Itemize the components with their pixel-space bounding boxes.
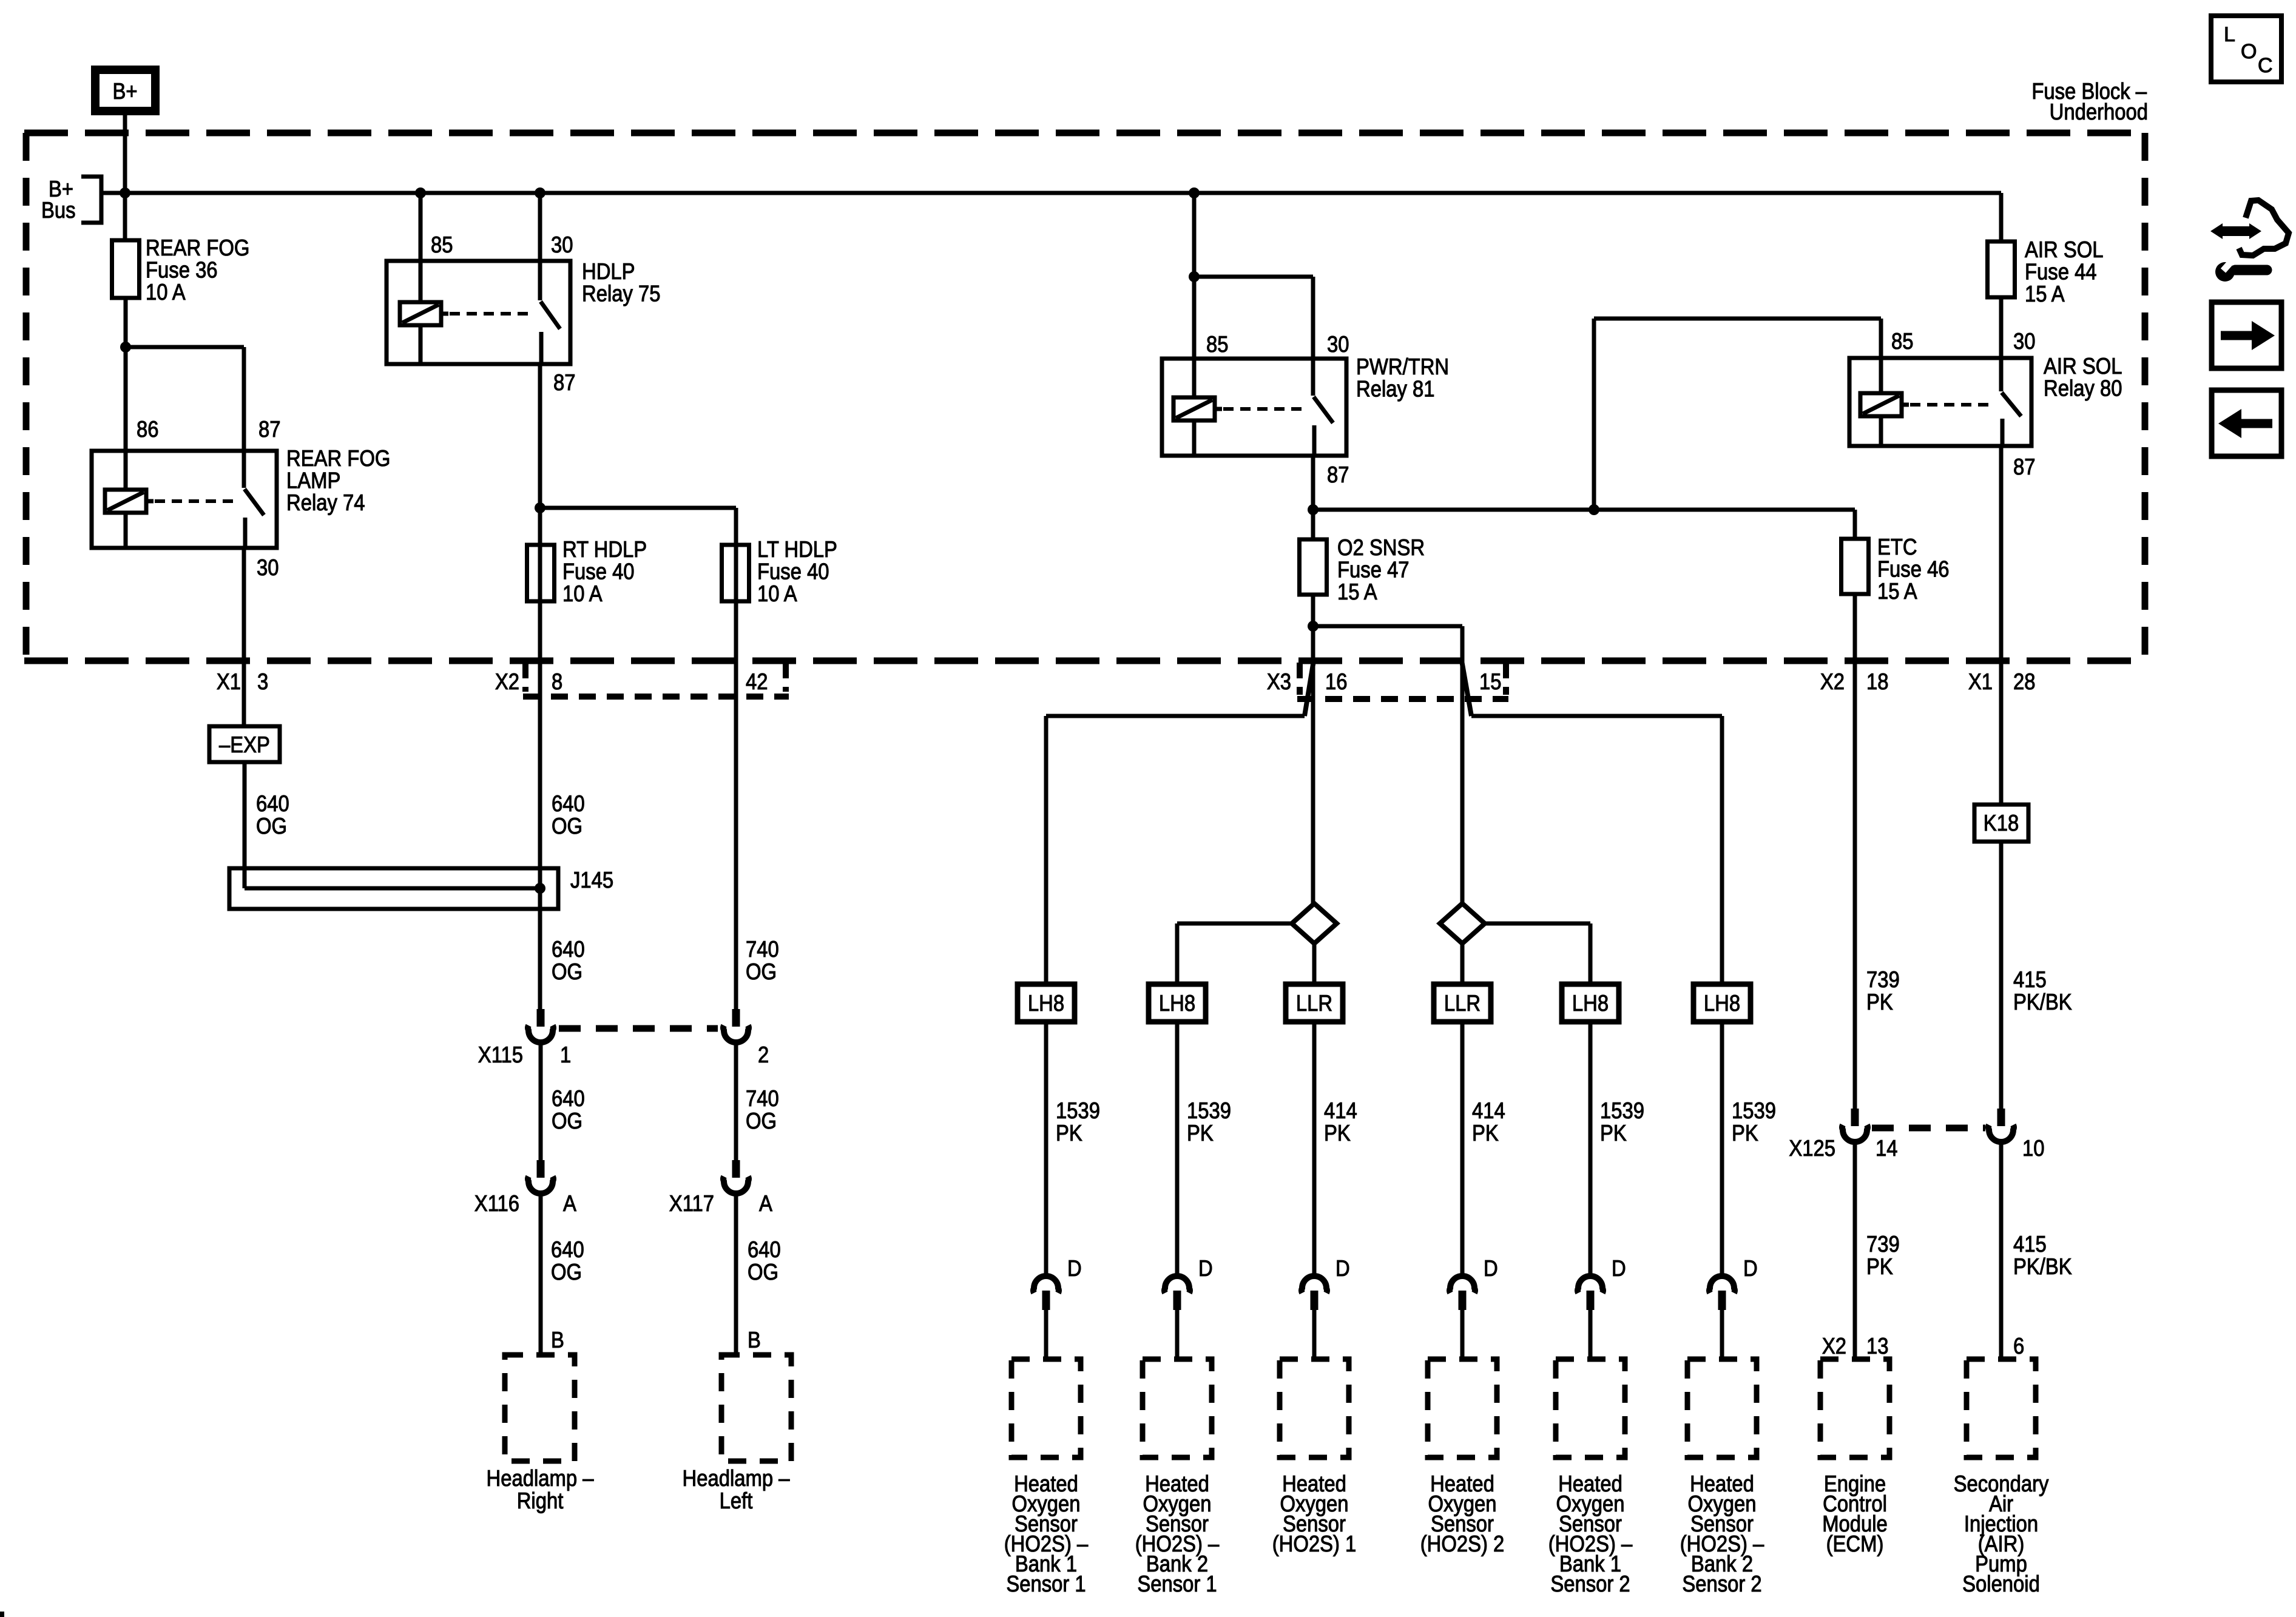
svg-text:414: 414 xyxy=(1324,1098,1357,1123)
svg-text:30: 30 xyxy=(1327,331,1349,357)
svg-text:Relay 80: Relay 80 xyxy=(2044,376,2122,401)
svg-text:87: 87 xyxy=(553,370,576,395)
svg-text:J145: J145 xyxy=(570,867,613,893)
svg-text:86: 86 xyxy=(137,416,159,442)
svg-text:LLR: LLR xyxy=(1296,990,1332,1016)
svg-text:640: 640 xyxy=(552,1085,585,1111)
svg-text:OG: OG xyxy=(256,813,287,839)
svg-text:85: 85 xyxy=(1891,328,1914,354)
svg-text:10 A: 10 A xyxy=(757,581,797,606)
svg-text:16: 16 xyxy=(1325,669,1348,694)
svg-text:13: 13 xyxy=(1866,1333,1889,1359)
svg-text:Sensor 2: Sensor 2 xyxy=(1550,1571,1630,1596)
svg-text:Left: Left xyxy=(720,1488,753,1513)
svg-text:X1: X1 xyxy=(1968,669,1993,694)
svg-text:1539: 1539 xyxy=(1732,1098,1776,1123)
svg-text:X2: X2 xyxy=(1820,669,1845,694)
svg-text:1539: 1539 xyxy=(1600,1098,1644,1123)
svg-text:18: 18 xyxy=(1866,669,1889,694)
svg-text:10 A: 10 A xyxy=(146,279,186,305)
svg-text:Right: Right xyxy=(517,1488,564,1513)
svg-text:Relay 81: Relay 81 xyxy=(1356,376,1435,402)
svg-text:1539: 1539 xyxy=(1187,1098,1231,1123)
svg-text:640: 640 xyxy=(748,1237,781,1262)
svg-text:D: D xyxy=(1612,1255,1626,1281)
svg-text:O: O xyxy=(2241,40,2257,63)
svg-text:85: 85 xyxy=(431,232,453,257)
svg-text:2: 2 xyxy=(758,1042,769,1067)
svg-text:Headlamp –: Headlamp – xyxy=(683,1465,790,1491)
svg-text:30: 30 xyxy=(257,555,279,580)
svg-text:PK: PK xyxy=(1056,1120,1082,1146)
svg-text:Bus: Bus xyxy=(41,197,76,223)
svg-text:PK: PK xyxy=(1324,1120,1351,1146)
svg-text:6: 6 xyxy=(2013,1333,2024,1359)
svg-text:LH8: LH8 xyxy=(1159,990,1195,1016)
svg-text:LH8: LH8 xyxy=(1704,990,1740,1016)
svg-text:640: 640 xyxy=(256,791,289,816)
svg-text:87: 87 xyxy=(2013,454,2036,479)
svg-text:15 A: 15 A xyxy=(1337,579,1377,604)
svg-text:30: 30 xyxy=(551,232,573,257)
svg-text:PK/BK: PK/BK xyxy=(2013,989,2072,1014)
svg-text:10: 10 xyxy=(2022,1135,2045,1161)
svg-text:A: A xyxy=(759,1190,772,1216)
svg-text:1539: 1539 xyxy=(1056,1098,1100,1123)
svg-text:K18: K18 xyxy=(1984,810,2019,836)
svg-text:Solenoid: Solenoid xyxy=(1962,1571,2040,1596)
svg-text:1: 1 xyxy=(560,1042,571,1067)
svg-text:415: 415 xyxy=(2013,967,2047,992)
svg-text:640: 640 xyxy=(552,936,585,962)
svg-text:X1: X1 xyxy=(217,669,241,694)
svg-text:PK: PK xyxy=(1866,1254,1893,1279)
svg-text:10 A: 10 A xyxy=(562,581,603,606)
svg-text:PK: PK xyxy=(1472,1120,1499,1146)
svg-text:42: 42 xyxy=(746,669,768,694)
svg-text:B+: B+ xyxy=(112,78,137,104)
svg-text:PK: PK xyxy=(1732,1120,1758,1146)
svg-text:Headlamp –: Headlamp – xyxy=(487,1465,594,1491)
svg-text:739: 739 xyxy=(1866,967,1900,992)
svg-text:B: B xyxy=(748,1327,761,1352)
svg-text:X117: X117 xyxy=(669,1190,714,1216)
svg-text:OG: OG xyxy=(552,813,582,839)
svg-text:30: 30 xyxy=(2013,328,2036,354)
svg-text:Sensor 1: Sensor 1 xyxy=(1006,1571,1086,1596)
svg-text:B: B xyxy=(551,1327,564,1352)
svg-text:D: D xyxy=(1335,1255,1350,1281)
svg-text:15: 15 xyxy=(1479,669,1502,694)
svg-text:85: 85 xyxy=(1206,331,1229,357)
svg-text:Underhood: Underhood xyxy=(2050,99,2148,124)
svg-text:X2: X2 xyxy=(495,669,519,694)
svg-text:LLR: LLR xyxy=(1444,990,1481,1016)
svg-text:15 A: 15 A xyxy=(2025,281,2065,306)
svg-text:Relay 74: Relay 74 xyxy=(286,490,365,515)
svg-text:OG: OG xyxy=(748,1259,778,1284)
svg-text:OG: OG xyxy=(551,1259,582,1284)
svg-text:OG: OG xyxy=(552,959,582,984)
svg-text:Sensor 2: Sensor 2 xyxy=(1682,1571,1761,1596)
svg-text:8: 8 xyxy=(552,669,562,694)
svg-text:(HO2S) 2: (HO2S) 2 xyxy=(1420,1531,1505,1556)
svg-text:14: 14 xyxy=(1876,1135,1898,1161)
svg-text:3: 3 xyxy=(257,669,268,694)
svg-text:D: D xyxy=(1198,1255,1213,1281)
svg-text:PK: PK xyxy=(1866,989,1893,1014)
svg-text:OG: OG xyxy=(746,959,777,984)
svg-text:OG: OG xyxy=(552,1108,582,1133)
svg-text:X115: X115 xyxy=(478,1042,523,1067)
svg-text:640: 640 xyxy=(552,791,585,816)
svg-text:LH8: LH8 xyxy=(1572,990,1609,1016)
svg-text:L: L xyxy=(2224,23,2235,46)
svg-text:PK: PK xyxy=(1187,1120,1214,1146)
svg-text:Relay 75: Relay 75 xyxy=(582,281,661,306)
svg-text:28: 28 xyxy=(2013,669,2036,694)
svg-text:740: 740 xyxy=(746,1085,779,1111)
svg-text:87: 87 xyxy=(258,416,281,442)
svg-text:15 A: 15 A xyxy=(1877,578,1917,604)
svg-text:X116: X116 xyxy=(474,1190,519,1216)
svg-text:A: A xyxy=(563,1190,576,1216)
svg-text:OG: OG xyxy=(746,1108,777,1133)
svg-text:D: D xyxy=(1743,1255,1758,1281)
svg-text:740: 740 xyxy=(746,936,779,962)
svg-text:(HO2S) 1: (HO2S) 1 xyxy=(1272,1531,1357,1556)
svg-text:X125: X125 xyxy=(1789,1135,1835,1161)
svg-text:415: 415 xyxy=(2013,1231,2047,1257)
svg-text:X2: X2 xyxy=(1822,1333,1846,1359)
svg-text:X3: X3 xyxy=(1267,669,1291,694)
svg-text:(ECM): (ECM) xyxy=(1826,1531,1884,1556)
svg-text:D: D xyxy=(1484,1255,1498,1281)
svg-text:Sensor 1: Sensor 1 xyxy=(1137,1571,1217,1596)
svg-text:C: C xyxy=(2258,54,2273,77)
svg-text:D: D xyxy=(1067,1255,1082,1281)
svg-text:LH8: LH8 xyxy=(1028,990,1064,1016)
svg-text:739: 739 xyxy=(1866,1231,1900,1257)
svg-text:PK: PK xyxy=(1600,1120,1627,1146)
svg-text:PK/BK: PK/BK xyxy=(2013,1254,2072,1279)
svg-text:414: 414 xyxy=(1472,1098,1505,1123)
svg-text:640: 640 xyxy=(551,1237,584,1262)
svg-text:–EXP: –EXP xyxy=(219,732,270,757)
svg-text:87: 87 xyxy=(1327,462,1349,487)
